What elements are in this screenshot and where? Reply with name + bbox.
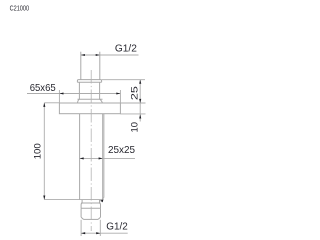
svg-text:25: 25 bbox=[130, 86, 140, 100]
svg-text:65x65: 65x65 bbox=[30, 83, 56, 94]
svg-text:100: 100 bbox=[33, 143, 43, 159]
svg-text:G1/2: G1/2 bbox=[115, 43, 137, 54]
svg-text:C21000: C21000 bbox=[10, 6, 30, 13]
svg-text:25x25: 25x25 bbox=[108, 145, 135, 156]
svg-text:10: 10 bbox=[130, 122, 140, 133]
svg-text:G1/2: G1/2 bbox=[106, 221, 128, 232]
